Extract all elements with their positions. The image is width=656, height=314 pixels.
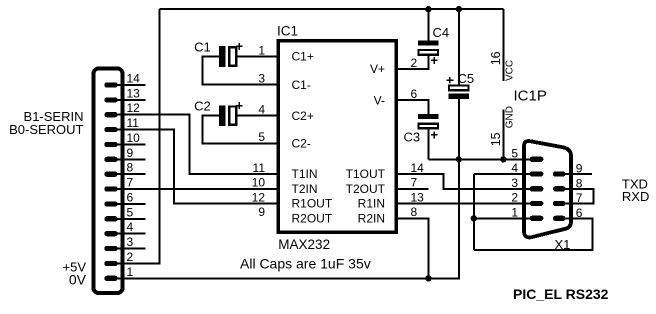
svg-text:C4: C4 — [433, 25, 450, 40]
svg-text:RXD: RXD — [622, 189, 649, 204]
svg-text:V-: V- — [374, 93, 385, 107]
svg-text:6: 6 — [127, 190, 134, 204]
svg-text:4: 4 — [511, 161, 518, 175]
svg-text:C5: C5 — [458, 71, 475, 86]
svg-text:R1IN: R1IN — [358, 197, 385, 211]
svg-text:2: 2 — [511, 191, 518, 205]
svg-text:16: 16 — [489, 51, 503, 65]
svg-text:9: 9 — [127, 146, 134, 160]
svg-text:PIC_EL RS232: PIC_EL RS232 — [513, 286, 609, 302]
svg-text:13: 13 — [127, 86, 141, 100]
svg-text:T2OUT: T2OUT — [346, 182, 386, 196]
svg-text:C2-: C2- — [292, 137, 311, 151]
svg-text:5: 5 — [511, 146, 518, 160]
svg-text:X1: X1 — [555, 237, 571, 252]
svg-text:GND: GND — [504, 106, 515, 128]
svg-text:7: 7 — [127, 176, 134, 190]
svg-text:4: 4 — [127, 220, 134, 234]
svg-text:3: 3 — [511, 176, 518, 190]
svg-text:14: 14 — [127, 71, 141, 85]
svg-text:6: 6 — [411, 87, 418, 101]
svg-text:R1OUT: R1OUT — [292, 197, 333, 211]
svg-text:C1: C1 — [194, 39, 211, 54]
svg-text:14: 14 — [411, 161, 425, 175]
svg-text:R2OUT: R2OUT — [292, 212, 333, 226]
svg-text:B0-SEROUT: B0-SEROUT — [9, 122, 83, 137]
svg-text:R2IN: R2IN — [358, 212, 385, 226]
svg-text:IC1: IC1 — [277, 23, 298, 38]
svg-text:11: 11 — [253, 161, 266, 175]
svg-text:VCC: VCC — [504, 60, 515, 81]
svg-text:C2+: C2+ — [292, 109, 314, 123]
svg-text:9: 9 — [258, 205, 265, 219]
svg-text:T1IN: T1IN — [292, 167, 318, 181]
svg-text:8: 8 — [411, 205, 418, 219]
svg-text:T2IN: T2IN — [292, 182, 318, 196]
svg-text:IC1P: IC1P — [514, 88, 547, 105]
svg-text:C3: C3 — [404, 130, 421, 145]
svg-text:10: 10 — [252, 176, 266, 190]
svg-text:12: 12 — [127, 101, 141, 115]
svg-text:11: 11 — [127, 116, 140, 130]
svg-text:2: 2 — [411, 56, 418, 70]
svg-text:3: 3 — [127, 235, 134, 249]
svg-text:5: 5 — [127, 205, 134, 219]
svg-text:C1-: C1- — [292, 78, 311, 92]
svg-text:All Caps are 1uF 35v: All Caps are 1uF 35v — [240, 256, 371, 272]
svg-text:7: 7 — [576, 191, 583, 205]
svg-text:9: 9 — [576, 162, 583, 176]
svg-text:8: 8 — [127, 161, 134, 175]
svg-text:15: 15 — [489, 132, 503, 146]
svg-text:10: 10 — [127, 131, 141, 145]
svg-text:12: 12 — [252, 190, 266, 204]
svg-text:4: 4 — [258, 103, 265, 117]
svg-text:T1OUT: T1OUT — [346, 167, 386, 181]
svg-text:MAX232: MAX232 — [278, 237, 330, 252]
svg-text:0V: 0V — [69, 272, 87, 288]
svg-text:7: 7 — [411, 176, 418, 190]
svg-text:6: 6 — [576, 206, 583, 220]
svg-text:C2: C2 — [194, 98, 211, 113]
svg-text:V+: V+ — [370, 62, 385, 76]
svg-text:1: 1 — [127, 265, 134, 279]
svg-text:5: 5 — [258, 130, 265, 144]
svg-text:8: 8 — [576, 176, 583, 190]
svg-text:3: 3 — [258, 72, 265, 86]
svg-text:C1+: C1+ — [292, 50, 314, 64]
svg-text:1: 1 — [258, 43, 265, 57]
svg-text:2: 2 — [127, 250, 134, 264]
svg-text:1: 1 — [511, 205, 518, 219]
svg-text:13: 13 — [411, 190, 425, 204]
